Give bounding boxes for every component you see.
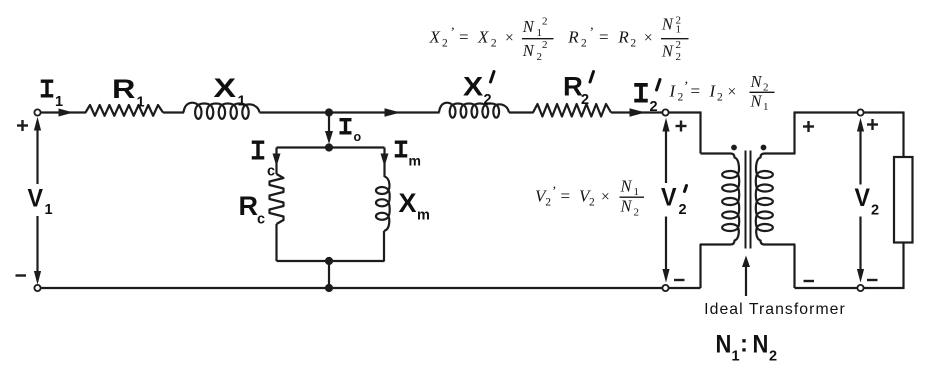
wire: load bottom lead	[902, 243, 904, 290]
node: V2' - terminal	[662, 285, 668, 291]
svg-text:’: ’	[683, 80, 688, 95]
minus mark V2'	[674, 279, 685, 281]
svg-text:1: 1	[634, 186, 640, 198]
svg-text:2: 2	[717, 91, 723, 103]
svg-text:=: =	[459, 28, 469, 47]
svg-text:X: X	[214, 73, 237, 103]
voltage arrow V2' lower	[665, 217, 667, 277]
svg-text:N: N	[522, 41, 535, 60]
svg-text:2: 2	[630, 38, 636, 50]
wire: secondary top to load	[793, 113, 795, 155]
current arrow Ic	[273, 154, 281, 167]
svg-text:N: N	[750, 92, 763, 111]
label R2'	[563, 71, 589, 108]
label Xm	[399, 188, 430, 224]
svg-text:R: R	[112, 74, 135, 104]
wire: Xm branch lower lead	[383, 231, 385, 261]
prime of X2'	[491, 72, 495, 83]
svg-text:2: 2	[542, 39, 548, 51]
minus mark V2 left	[804, 280, 815, 282]
svg-text:2: 2	[484, 92, 492, 108]
junction: shunt tap node	[325, 108, 333, 116]
plus mark V2 right	[867, 123, 878, 125]
svg-text:V: V	[661, 184, 676, 212]
junction: magnetising branch top	[325, 143, 333, 151]
wire: Rc branch upper lead	[275, 148, 277, 175]
svg-text:1: 1	[55, 94, 63, 110]
inductor Xm	[376, 177, 390, 232]
svg-text:2: 2	[589, 196, 595, 208]
svg-text:=: =	[691, 82, 701, 101]
wire: top right corner to load	[902, 112, 904, 158]
svg-text::: :	[740, 331, 748, 358]
svg-text:N: N	[522, 17, 535, 36]
svg-text:×: ×	[601, 189, 610, 206]
wire: X1 to X2' through shunt tap	[260, 111, 440, 113]
voltage arrow V2' upper	[665, 124, 667, 183]
wire: bottom return rail	[41, 287, 701, 289]
plus mark V2 left	[803, 125, 814, 127]
current arrow I0	[328, 114, 330, 137]
svg-text:×: ×	[728, 84, 737, 101]
formula V2' = V2 x N1/N2	[535, 177, 639, 219]
label I2'	[634, 85, 648, 101]
svg-text:Ideal Transformer: Ideal Transformer	[704, 301, 846, 318]
transformer primary coil	[701, 154, 740, 289]
svg-text:=: =	[599, 28, 609, 47]
label Ic	[252, 142, 265, 158]
transformer core	[745, 151, 747, 249]
node: V1 + input terminal	[34, 109, 40, 115]
svg-text:N: N	[661, 15, 674, 34]
svg-text:2: 2	[581, 38, 587, 50]
svg-text:’: ’	[551, 185, 556, 200]
polarity dot primary	[731, 145, 737, 151]
inductor X1	[184, 103, 260, 119]
label V1	[28, 185, 53, 218]
label X1	[214, 73, 246, 109]
svg-text:N: N	[750, 72, 763, 91]
voltage arrow V2 upper	[859, 124, 861, 185]
resistor R2'	[533, 104, 611, 117]
wire: bottom secondary rail	[795, 287, 904, 289]
label V2	[855, 184, 880, 218]
svg-text:2: 2	[537, 51, 543, 63]
voltage arrow V1 upper	[36, 124, 38, 184]
label V2'	[661, 184, 687, 218]
formula R2' = R2 x N1^2/N2^2	[567, 15, 681, 63]
current arrow I2'	[630, 108, 646, 116]
svg-text:2: 2	[442, 38, 448, 50]
current arrow I1	[59, 109, 74, 117]
junction: return rail tap	[325, 284, 333, 292]
voltage arrow V1 lower	[36, 216, 38, 278]
svg-text:1: 1	[537, 27, 543, 39]
label X2'	[463, 72, 492, 108]
wire: R1 to X1	[163, 111, 184, 113]
wire: shunt to return rail	[328, 261, 330, 288]
wire: terminal to R1	[41, 111, 86, 113]
svg-text:V: V	[855, 184, 870, 212]
svg-text:N: N	[661, 41, 674, 60]
wire: X2' to R2'	[509, 111, 534, 113]
wire: Rc branch lower lead	[275, 224, 277, 261]
svg-text:2: 2	[581, 92, 589, 108]
svg-text:N: N	[753, 330, 769, 358]
svg-text:2: 2	[676, 39, 682, 51]
label R1	[112, 74, 145, 110]
svg-text:N: N	[716, 330, 732, 358]
svg-text:’: ’	[450, 26, 455, 41]
svg-text:o: o	[354, 130, 362, 144]
resistor Rc	[270, 174, 284, 224]
current arrow on wire to X2'	[385, 108, 401, 116]
svg-text:2: 2	[871, 203, 879, 219]
svg-text:1: 1	[676, 23, 682, 35]
voltage arrow V2 lower	[859, 217, 861, 277]
svg-text:’: ’	[589, 26, 594, 41]
prime of R2'	[590, 72, 594, 83]
load resistor	[894, 157, 913, 243]
svg-text:2: 2	[491, 38, 497, 50]
formula X2' = X2 x N1^2/N2^2	[429, 16, 548, 63]
current arrow Im	[381, 154, 389, 167]
svg-text:N: N	[620, 197, 633, 216]
node: top of shunt branch	[662, 109, 668, 115]
label Im	[395, 142, 408, 156]
svg-text:=: =	[561, 187, 571, 206]
svg-text:1: 1	[763, 101, 769, 113]
svg-text:m: m	[409, 153, 421, 169]
svg-text:×: ×	[644, 30, 653, 47]
svg-text:V: V	[28, 185, 43, 213]
minus mark V1	[16, 274, 27, 276]
plus mark V1	[17, 124, 28, 126]
polarity dot secondary	[761, 145, 767, 151]
svg-text:2: 2	[769, 349, 777, 365]
svg-text:2: 2	[634, 206, 640, 218]
svg-text:c: c	[267, 164, 275, 180]
label Rc	[239, 191, 266, 228]
svg-text:2: 2	[650, 99, 658, 115]
svg-text:1: 1	[45, 202, 53, 218]
label N1:N2	[716, 330, 778, 364]
svg-text:×: ×	[505, 30, 514, 47]
minus mark V2 right	[867, 279, 878, 281]
transformer secondary coil	[756, 154, 795, 289]
svg-text:m: m	[417, 208, 430, 224]
wire: Xm branch upper lead	[383, 148, 385, 178]
node: V1 - terminal	[34, 285, 40, 291]
svg-text:1: 1	[238, 94, 246, 110]
svg-text:2: 2	[679, 202, 687, 218]
svg-text:X: X	[463, 72, 483, 102]
svg-text:2: 2	[676, 51, 682, 63]
label I0	[340, 120, 352, 133]
prime of I2'	[657, 80, 661, 91]
svg-text:1: 1	[137, 95, 145, 111]
svg-text:N: N	[620, 177, 633, 196]
plus mark V2'	[676, 125, 687, 127]
node: V2 + terminal	[857, 109, 863, 115]
prime of V2'	[685, 186, 687, 192]
svg-text:X: X	[477, 28, 489, 47]
svg-text:2: 2	[542, 16, 548, 28]
formula I2' = I2 x N2/N1	[669, 72, 769, 113]
label Ideal Transformer pointer arrow	[745, 262, 747, 296]
svg-text:R: R	[617, 28, 629, 47]
wire: shunt top rail	[277, 146, 385, 148]
inductor X2'	[439, 103, 509, 118]
node: V2 - terminal	[857, 285, 863, 291]
wire: shunt bottom rail	[277, 260, 385, 262]
svg-text:c: c	[257, 212, 265, 228]
wire: R2' to I2' terminal	[611, 111, 662, 113]
label I1	[41, 81, 54, 96]
svg-text:1: 1	[732, 349, 740, 365]
wire: top into transformer primary	[669, 111, 702, 113]
junction: shunt bottom node	[325, 257, 333, 265]
svg-text:R: R	[239, 191, 259, 221]
svg-text:X: X	[429, 28, 441, 47]
resistor R1	[86, 105, 164, 116]
svg-text:R: R	[567, 28, 579, 47]
svg-text:X: X	[399, 188, 417, 218]
